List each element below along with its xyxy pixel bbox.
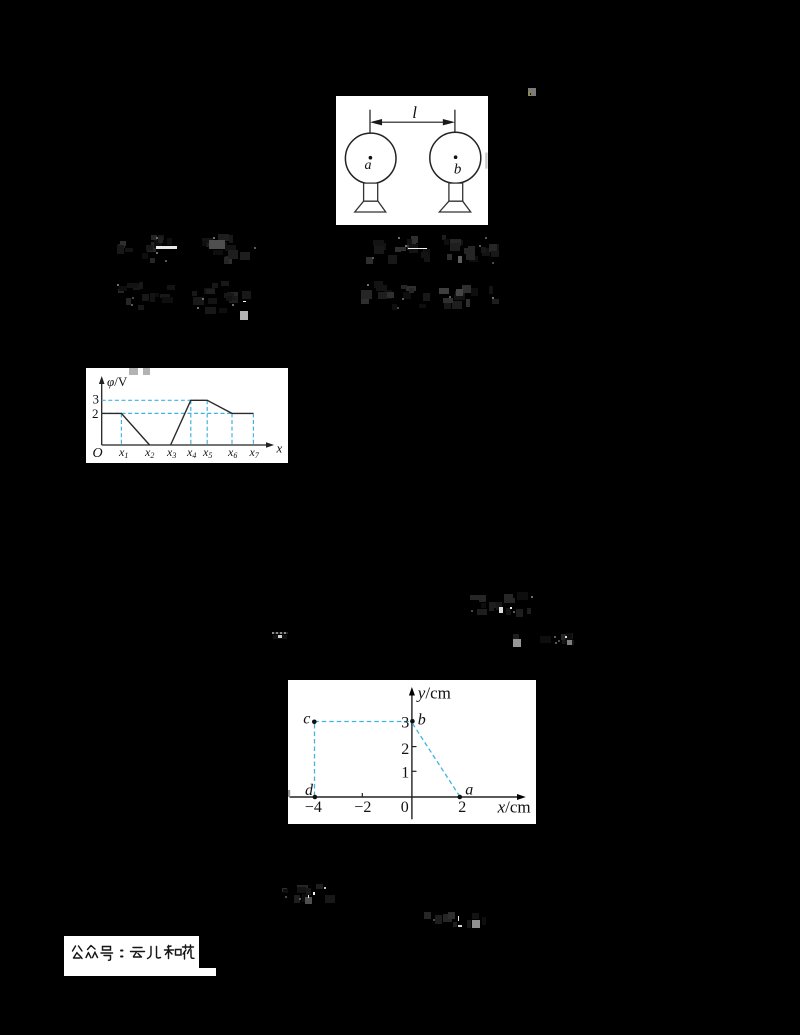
dashed c to b: [314, 721, 410, 723]
graph: charge positions in x-y plane: [288, 680, 536, 824]
dashed c to d: [314, 724, 316, 797]
point c: [312, 720, 317, 725]
dashed b to a: [413, 724, 460, 797]
ghost formula cluster B2: [192, 281, 257, 315]
svg-text:−4: −4: [305, 799, 322, 816]
svg-text:x7: x7: [249, 445, 260, 460]
svg-text:0: 0: [401, 799, 409, 816]
ghost formula cluster BA: [279, 881, 335, 904]
figure: two charged spheres a and b on insulating stands: [336, 96, 488, 226]
儿: [148, 946, 161, 958]
ghost formula cluster B1: [192, 231, 257, 265]
point a: [458, 795, 463, 800]
sphere b: [430, 132, 481, 183]
svg-text:a: a: [365, 158, 372, 173]
svg-text:b: b: [454, 161, 462, 177]
ghost formula cluster BB: [423, 912, 491, 928]
云: [131, 947, 145, 957]
left edge notch: [288, 790, 290, 797]
wire above sphere a: [369, 109, 371, 132]
svg-text:O: O: [93, 446, 103, 461]
wechat account label box: [64, 936, 200, 968]
svg-text:l: l: [412, 103, 417, 122]
svg-text:3: 3: [93, 392, 100, 407]
svg-text:x: x: [276, 441, 283, 456]
svg-text:φ/V: φ/V: [107, 374, 128, 389]
gray blob above graph left: [129, 368, 139, 375]
dashed vertical x1: [120, 413, 122, 445]
svg-text:x1: x1: [118, 445, 128, 460]
gray artifact square top right of figure: [528, 88, 536, 97]
公: [73, 946, 83, 959]
center dot b: [454, 155, 458, 159]
point d: [313, 795, 318, 800]
sphere a: [345, 133, 396, 184]
dashed level y=2: [102, 412, 232, 414]
花: [183, 945, 195, 959]
small mark left of middle formulas: [272, 632, 288, 634]
stand neck a: [364, 183, 378, 201]
svg-text:−2: −2: [354, 799, 371, 816]
svg-text:1: 1: [401, 765, 409, 782]
号: [101, 946, 113, 960]
svg-text:x3: x3: [166, 445, 176, 460]
x tick -2: [361, 793, 363, 797]
dashed vertical x6: [231, 413, 233, 445]
ghost formula cluster C2: [360, 280, 431, 311]
众: [86, 945, 98, 957]
dashed vertical x4: [190, 400, 192, 445]
wechat account text 公众号：云儿和花 drawn as strokes: [70, 944, 196, 962]
gray blob above graph right: [143, 368, 151, 375]
svg-text:x/cm: x/cm: [497, 797, 531, 816]
ghost formula cluster D2: [440, 284, 502, 311]
dashed vertical x7: [252, 413, 254, 445]
和: [165, 945, 182, 958]
bright fraction bar row1 left: [156, 246, 177, 248]
svg-text:3: 3: [401, 715, 409, 732]
white speck mid: [499, 607, 503, 613]
wire above sphere b: [454, 109, 456, 132]
gray block row1: [209, 240, 225, 248]
dashed vertical x5: [206, 400, 208, 445]
dimension arrow l between wires: [372, 119, 453, 124]
svg-text:x4: x4: [186, 445, 196, 460]
gray scrollbar remnant on right edge: [485, 152, 487, 168]
ghost formula cluster M2: [512, 631, 576, 649]
svg-text:b: b: [418, 712, 426, 729]
y tick 2: [412, 746, 417, 748]
svg-text:x6: x6: [227, 445, 237, 460]
stand base b: [439, 201, 470, 212]
ghost formula cluster M1: [463, 592, 536, 617]
bright fraction bar row1 right: [408, 248, 427, 250]
ghost formula cluster D1: [440, 232, 502, 266]
light gray square row2: [240, 311, 248, 320]
ghost formula cluster A1: [113, 233, 177, 264]
：: [121, 950, 123, 956]
y tick 1: [412, 770, 417, 772]
svg-text:c: c: [303, 710, 310, 727]
graph: electric potential phi/V versus x: [86, 368, 288, 463]
center dot a: [369, 155, 373, 159]
svg-text:x5: x5: [202, 445, 212, 460]
x axis: [290, 796, 522, 798]
svg-text:x2: x2: [144, 445, 154, 460]
svg-text:a: a: [465, 781, 473, 798]
stand neck b: [449, 183, 463, 201]
y axis: [101, 380, 103, 445]
y axis: [411, 691, 413, 819]
x axis: [102, 444, 270, 446]
ghost formula cluster A2: [113, 282, 177, 312]
stand base a: [355, 201, 386, 212]
potential curve: [102, 400, 254, 445]
ghost formula cluster C1: [360, 234, 431, 265]
svg-text:2: 2: [92, 406, 99, 421]
gray block mid2: [513, 639, 522, 647]
dashed level y=3: [102, 399, 208, 401]
point b: [410, 719, 415, 724]
gray blob right group: [458, 256, 462, 263]
svg-text:y/cm: y/cm: [416, 683, 451, 702]
white dash row2: [243, 301, 246, 302]
svg-text:d: d: [305, 782, 314, 799]
svg-text:2: 2: [401, 741, 409, 758]
svg-text:2: 2: [458, 799, 466, 816]
